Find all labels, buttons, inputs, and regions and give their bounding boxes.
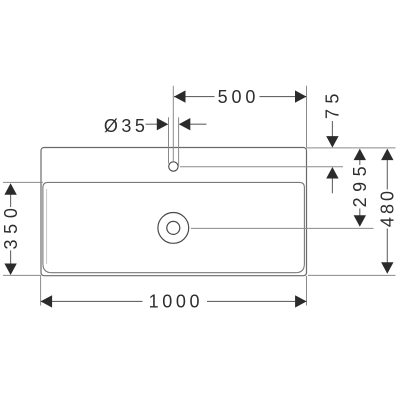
svg-text:1000: 1000 bbox=[149, 292, 203, 312]
svg-text:75: 75 bbox=[323, 88, 343, 119]
svg-text:Ø35: Ø35 bbox=[104, 116, 149, 136]
svg-text:350: 350 bbox=[1, 202, 21, 249]
svg-text:500: 500 bbox=[218, 87, 260, 107]
svg-text:480: 480 bbox=[378, 188, 398, 227]
svg-text:295: 295 bbox=[350, 161, 370, 208]
